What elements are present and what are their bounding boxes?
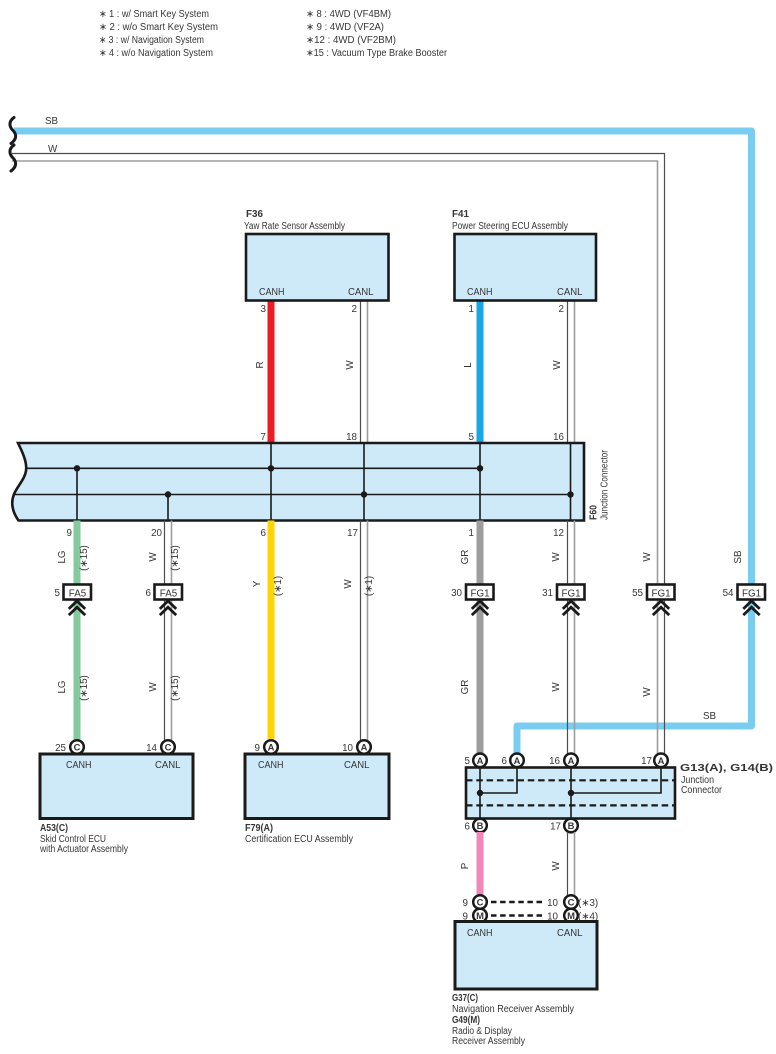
svg-text:(∗1): (∗1) — [364, 576, 375, 596]
svg-text:CANH: CANH — [467, 287, 493, 298]
wire W : F41 CANL pin2 to F60 pin16 — [552, 301, 575, 444]
svg-text:(∗15): (∗15) — [79, 675, 90, 701]
connector FG1 pin55 — [632, 585, 674, 616]
svg-text:FA5: FA5 — [160, 589, 178, 600]
svg-text:∗15 : Vacuum Type Brake Booste: ∗15 : Vacuum Type Brake Booster — [306, 48, 448, 59]
F60 internal wire pin18 to pin17 — [363, 443, 365, 521]
wire W : F60 pin17 to F79 pin10 — [343, 521, 375, 748]
svg-text:M: M — [476, 910, 484, 921]
svg-text:(∗15): (∗15) — [170, 675, 181, 701]
svg-text:A: A — [568, 755, 575, 766]
wire R : F36 CANH pin3 to F60 pin7 — [255, 301, 271, 444]
svg-text:G13(A), G14(B): G13(A), G14(B) — [680, 763, 773, 774]
svg-text:M: M — [567, 910, 575, 921]
wire LG : F60 pin9 to A53 pin25 — [57, 521, 90, 748]
svg-text:W: W — [345, 360, 356, 370]
G13 internal wire pin6A to bus — [480, 768, 517, 794]
svg-text:CANH: CANH — [259, 287, 285, 298]
svg-text:16: 16 — [553, 432, 564, 443]
svg-text:A: A — [361, 742, 368, 753]
continuation brace on W — [10, 145, 16, 171]
node at CANH bus x271 — [268, 465, 274, 471]
connector circle 16(A) on G13 — [549, 754, 578, 768]
svg-text:W: W — [48, 144, 58, 155]
svg-text:17: 17 — [550, 822, 561, 833]
F60 internal wire to pin 20 — [167, 495, 169, 521]
svg-text:CANH: CANH — [66, 760, 92, 771]
svg-text:W: W — [642, 552, 653, 562]
svg-text:6: 6 — [502, 756, 508, 767]
svg-text:A: A — [477, 755, 484, 766]
continuation brace on SB — [10, 118, 16, 144]
svg-text:∗ 2 : w/o Smart Key System: ∗ 2 : w/o Smart Key System — [99, 22, 218, 33]
svg-text:B: B — [568, 820, 575, 831]
legend column 2 — [306, 9, 448, 59]
svg-text:G37(C): G37(C) — [452, 993, 478, 1004]
ECU F36 Yaw Rate Sensor Assembly — [244, 209, 389, 301]
G13 internal wire pin5A to pin6B — [479, 768, 481, 819]
svg-text:5: 5 — [55, 588, 61, 599]
connector row M (G49) — [463, 909, 599, 923]
wire W : G14 pin17B to G37 pin10 — [551, 832, 575, 902]
svg-text:5: 5 — [465, 756, 471, 767]
svg-text:2: 2 — [559, 304, 564, 315]
svg-text:∗ 3 : w/ Navigation System: ∗ 3 : w/ Navigation System — [99, 35, 204, 46]
wire L : F41 CANH pin1 to F60 pin5 — [463, 301, 480, 444]
svg-text:W: W — [148, 682, 159, 692]
svg-text:14: 14 — [146, 743, 157, 754]
svg-text:SB: SB — [733, 550, 744, 564]
svg-text:9: 9 — [463, 898, 468, 909]
svg-text:Yaw Rate Sensor Assembly: Yaw Rate Sensor Assembly — [244, 221, 345, 232]
svg-text:6: 6 — [261, 528, 267, 539]
svg-text:CANL: CANL — [344, 760, 370, 771]
junction connector G13(A) G14(B) body — [466, 763, 773, 819]
connector circle 17(B) on G14 — [550, 819, 578, 833]
svg-text:17: 17 — [641, 756, 652, 767]
CANH bus line inside F60 — [26, 467, 480, 469]
svg-text:FG1: FG1 — [742, 589, 761, 600]
svg-text:∗ 1 : w/ Smart Key System: ∗ 1 : w/ Smart Key System — [99, 9, 209, 20]
svg-text:SB: SB — [45, 116, 59, 127]
G13 internal wire pin16A to pin17B — [570, 768, 572, 819]
svg-text:C: C — [477, 897, 484, 908]
node in G13 at x480 — [477, 790, 483, 796]
F60 internal wire pin7 to pin6 — [270, 443, 272, 521]
svg-text:∗12 : 4WD (VF2BM): ∗12 : 4WD (VF2BM) — [306, 35, 396, 46]
svg-text:CANL: CANL — [155, 760, 181, 771]
node in G13 at x571 — [568, 790, 574, 796]
svg-text:(∗15): (∗15) — [170, 545, 181, 571]
wire P : G14 pin6B to G37 pin9 — [460, 832, 480, 902]
svg-text:30: 30 — [451, 588, 462, 599]
svg-text:20: 20 — [151, 528, 162, 539]
svg-text:GR: GR — [460, 550, 471, 565]
connector FG1 pin30 — [451, 585, 493, 616]
svg-text:10: 10 — [342, 743, 353, 754]
svg-text:CANL: CANL — [557, 287, 583, 298]
svg-text:17: 17 — [347, 528, 358, 539]
svg-text:Power Steering ECU Assembly: Power Steering ECU Assembly — [452, 221, 568, 232]
svg-text:LG: LG — [57, 550, 68, 563]
G13 internal wire pin17A to bus — [571, 768, 661, 794]
junction connector F60 body — [12, 443, 610, 521]
node at CANL bus x364 — [361, 491, 367, 497]
svg-text:W: W — [551, 552, 562, 562]
svg-text:W: W — [551, 861, 562, 871]
svg-text:LG: LG — [57, 680, 68, 693]
svg-text:1: 1 — [469, 304, 474, 315]
ECU A53(C) Skid Control ECU with Actuator Assembly — [39, 754, 193, 855]
svg-text:12: 12 — [553, 528, 564, 539]
node at CANH bus x77 — [74, 465, 80, 471]
svg-text:F79(A): F79(A) — [245, 823, 273, 834]
svg-text:CANH: CANH — [258, 760, 284, 771]
ECU F41 Power Steering ECU Assembly — [452, 209, 596, 301]
svg-text:B: B — [477, 820, 484, 831]
connector circle 17(A) on G13 — [641, 754, 668, 768]
svg-text:9: 9 — [67, 528, 72, 539]
wire SB main bus — [14, 116, 752, 756]
wire W : F60 pin12 to G13 pin16 — [551, 521, 575, 762]
svg-text:FA5: FA5 — [69, 589, 87, 600]
svg-text:10: 10 — [547, 898, 558, 909]
svg-text:∗ 9 : 4WD (VF2A): ∗ 9 : 4WD (VF2A) — [306, 22, 384, 33]
svg-text:25: 25 — [55, 743, 66, 754]
svg-text:54: 54 — [723, 588, 734, 599]
node at CANL bus x168 — [165, 491, 171, 497]
wire W : F36 CANL pin2 to F60 pin18 — [345, 301, 368, 444]
ECU F79(A) Certification ECU Assembly — [245, 754, 389, 845]
svg-text:GR: GR — [460, 680, 471, 695]
svg-text:(∗15): (∗15) — [79, 545, 90, 571]
svg-text:F36: F36 — [246, 209, 264, 220]
svg-text:SB: SB — [703, 711, 717, 722]
connector FA5 pin5 — [55, 585, 91, 616]
connector circle 5(A) on G13 — [465, 754, 487, 768]
svg-text:5: 5 — [469, 432, 475, 443]
F60 internal wire to pin 9 — [76, 468, 78, 520]
svg-text:55: 55 — [632, 588, 643, 599]
wire GR : F60 pin1 to G13 pin5 — [460, 521, 480, 762]
svg-text:W: W — [551, 682, 562, 692]
svg-text:W: W — [148, 552, 159, 562]
legend column 1 — [99, 9, 218, 59]
svg-text:Junction Connector: Junction Connector — [600, 449, 611, 520]
svg-text:F41: F41 — [452, 209, 470, 220]
svg-text:9: 9 — [255, 743, 260, 754]
svg-text:G49(M): G49(M) — [452, 1015, 480, 1026]
F60 internal wire pin5 to pin1 — [479, 443, 481, 521]
ECU G37(C)/G49(M) Navigation Receiver / Radio and Display Receiver Assembly — [452, 922, 597, 1048]
svg-text:L: L — [463, 362, 474, 368]
connector circle 25(C) on A53 — [55, 740, 84, 754]
svg-text:with Actuator Assembly: with Actuator Assembly — [39, 844, 128, 855]
svg-text:∗ 4 : w/o Navigation System: ∗ 4 : w/o Navigation System — [99, 48, 213, 59]
svg-text:6: 6 — [146, 588, 152, 599]
node at CANL bus x570.5 — [567, 491, 573, 497]
dashed partition line lower in G13 — [466, 804, 675, 806]
connector row C (G37) — [463, 895, 599, 909]
svg-text:A: A — [658, 755, 665, 766]
svg-text:(∗3): (∗3) — [578, 898, 598, 909]
svg-text:1: 1 — [469, 528, 474, 539]
svg-text:CANL: CANL — [348, 287, 374, 298]
connector circle 6(B) on G14 — [465, 819, 487, 833]
svg-text:16: 16 — [549, 756, 560, 767]
connector circle 9(A) on F79 — [255, 740, 278, 754]
connector circle 14(C) on A53 — [146, 740, 175, 754]
svg-text:A: A — [514, 755, 521, 766]
connector circle 10(A) on F79 — [342, 740, 371, 754]
svg-text:C: C — [568, 897, 575, 908]
wire W main bus (double line) — [12, 144, 665, 761]
svg-text:Connector: Connector — [681, 785, 723, 796]
svg-text:Certification ECU Assembly: Certification ECU Assembly — [245, 834, 353, 845]
svg-text:18: 18 — [346, 432, 357, 443]
svg-text:R: R — [255, 361, 266, 368]
svg-text:CANH: CANH — [467, 928, 493, 939]
svg-text:FG1: FG1 — [470, 589, 489, 600]
svg-text:W: W — [343, 579, 354, 589]
svg-text:Navigation Receiver Assembly: Navigation Receiver Assembly — [452, 1004, 574, 1015]
svg-text:P: P — [460, 862, 471, 869]
wire Y : F60 pin6 to F79 pin9 — [252, 521, 284, 748]
svg-text:FG1: FG1 — [651, 589, 670, 600]
dashed partition line upper in G13 — [466, 779, 675, 781]
CANL bus line inside F60 — [15, 494, 571, 496]
svg-text:W: W — [552, 360, 563, 370]
svg-text:31: 31 — [542, 588, 553, 599]
svg-text:CANL: CANL — [557, 928, 583, 939]
svg-text:A53(C): A53(C) — [40, 823, 68, 834]
svg-text:A: A — [268, 742, 275, 753]
connector FA5 pin6 — [146, 585, 182, 616]
connector FG1 pin54 — [723, 585, 765, 616]
svg-text:7: 7 — [261, 432, 266, 443]
F60 internal wire pin16 to pin12 — [570, 443, 572, 521]
svg-text:(∗1): (∗1) — [273, 576, 284, 596]
svg-text:2: 2 — [352, 304, 357, 315]
svg-text:3: 3 — [261, 304, 267, 315]
connector circle 6(A) on G13 — [502, 754, 524, 768]
connector FG1 pin31 — [542, 585, 584, 616]
svg-text:∗ 8 : 4WD (VF4BM): ∗ 8 : 4WD (VF4BM) — [306, 9, 391, 20]
svg-text:Receiver Assembly: Receiver Assembly — [452, 1036, 525, 1047]
svg-text:FG1: FG1 — [561, 589, 580, 600]
svg-text:C: C — [74, 742, 81, 753]
svg-text:F60: F60 — [589, 505, 600, 520]
svg-text:W: W — [642, 687, 653, 697]
node at CANH bus x480 — [477, 465, 483, 471]
svg-text:C: C — [165, 742, 172, 753]
svg-text:6: 6 — [465, 822, 471, 833]
svg-text:Y: Y — [252, 580, 263, 587]
wire W : F60 pin20 to A53 pin14 — [148, 521, 181, 748]
